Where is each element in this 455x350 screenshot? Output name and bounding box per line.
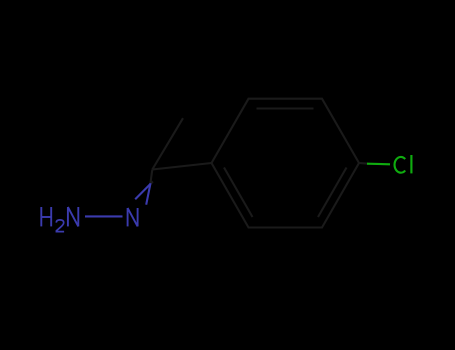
atom label H2N : N glyph [68,207,78,226]
bond N-N [85,215,123,217]
bond methyl CH3 [152,118,183,169]
bond ipso C to exocyclic C [152,163,211,170]
atom label H2N : subscript 2 glyph [56,220,64,232]
atom label Cl : l glyph [410,155,412,173]
atom label H2N : H glyph [41,207,51,226]
double bond C=N blue lines [135,183,150,205]
atom label Cl : C glyph [395,157,406,173]
bond C-Cl green half [367,163,390,166]
atom label N (hydrazone) [128,208,138,226]
ring double bond lower-left edge [224,168,253,218]
benzene ring [212,99,360,228]
double bond C=N dark upper halves [150,170,153,185]
ring double bond top edge [257,107,314,109]
ring double bond lower-right edge [318,168,347,218]
bond C-Cl dark half [359,162,368,165]
